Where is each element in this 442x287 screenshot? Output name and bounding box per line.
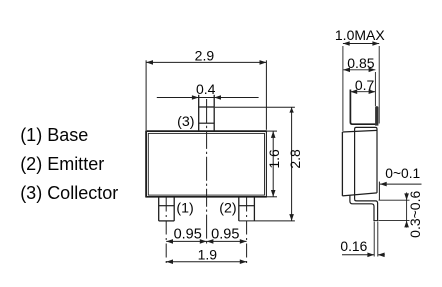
dimension 0.7 — [350, 91, 375, 93]
svg-text:0~0.1: 0~0.1 — [385, 166, 420, 181]
dimension 0.95 right — [207, 239, 247, 244]
svg-text:2.9: 2.9 — [195, 47, 215, 63]
side view body outline — [342, 130, 377, 196]
dimension 0.3~0.6 — [379, 192, 410, 227]
collector tab pin 3 outline — [199, 95, 215, 131]
side view lead tip cap — [373, 220, 378, 222]
svg-text:(1): (1) — [176, 201, 193, 217]
dimension 0.16 — [342, 254, 385, 256]
dimension 0~0.1 — [380, 183, 422, 185]
dimension 0.4 — [157, 97, 259, 99]
svg-text:(2): (2) — [219, 201, 236, 217]
front center line — [206, 99, 208, 244]
side view body right edge and lead inner surface — [355, 127, 377, 199]
svg-text:2.8: 2.8 — [287, 149, 303, 169]
pin 2 kink line — [239, 205, 255, 207]
front view body outline outer — [146, 130, 266, 132]
svg-text:0.95: 0.95 — [211, 227, 239, 243]
svg-text:1.6: 1.6 — [266, 149, 282, 169]
svg-text:0.4: 0.4 — [196, 81, 216, 97]
dimension 1.0MAX — [343, 44, 379, 131]
svg-text:0.7: 0.7 — [355, 77, 375, 93]
svg-text:0.85: 0.85 — [347, 55, 374, 71]
dimension 0.16 extension lines — [374, 222, 378, 257]
svg-text:(1) Base: (1) Base — [20, 125, 88, 145]
side view emitter lead outer surface — [350, 195, 374, 220]
svg-text:0.3~0.6: 0.3~0.6 — [407, 191, 423, 238]
side view collector lead foot — [375, 106, 378, 126]
pin 2 outline — [239, 197, 255, 221]
pin 1 kink line — [159, 205, 175, 207]
svg-text:(3) Collector: (3) Collector — [20, 183, 118, 203]
svg-text:1.9: 1.9 — [198, 246, 218, 262]
dimension 1.6 — [272, 131, 274, 197]
svg-text:0.16: 0.16 — [340, 239, 367, 254]
collector tab kink line — [199, 122, 215, 124]
side view collector lead outer surface — [350, 90, 375, 125]
dimension 2.9 — [146, 60, 266, 130]
dimension 0.95 left — [166, 240, 246, 242]
svg-text:(2) Emitter: (2) Emitter — [20, 154, 104, 174]
seating plane extension line — [378, 182, 380, 201]
svg-text:0.95: 0.95 — [174, 227, 202, 243]
pin 1 center line — [165, 198, 167, 267]
svg-text:(3): (3) — [177, 114, 194, 130]
side view emitter lead inner surface — [355, 199, 378, 220]
dimension 0.85 — [343, 70, 375, 106]
pin 2 center line — [246, 198, 248, 267]
dimension 2.8 — [215, 107, 295, 221]
front view body inner chamfer line — [148, 133, 264, 195]
pin 1 outline — [159, 197, 175, 221]
svg-text:1.0MAX: 1.0MAX — [335, 27, 385, 43]
dimension 1.9 — [166, 261, 246, 263]
